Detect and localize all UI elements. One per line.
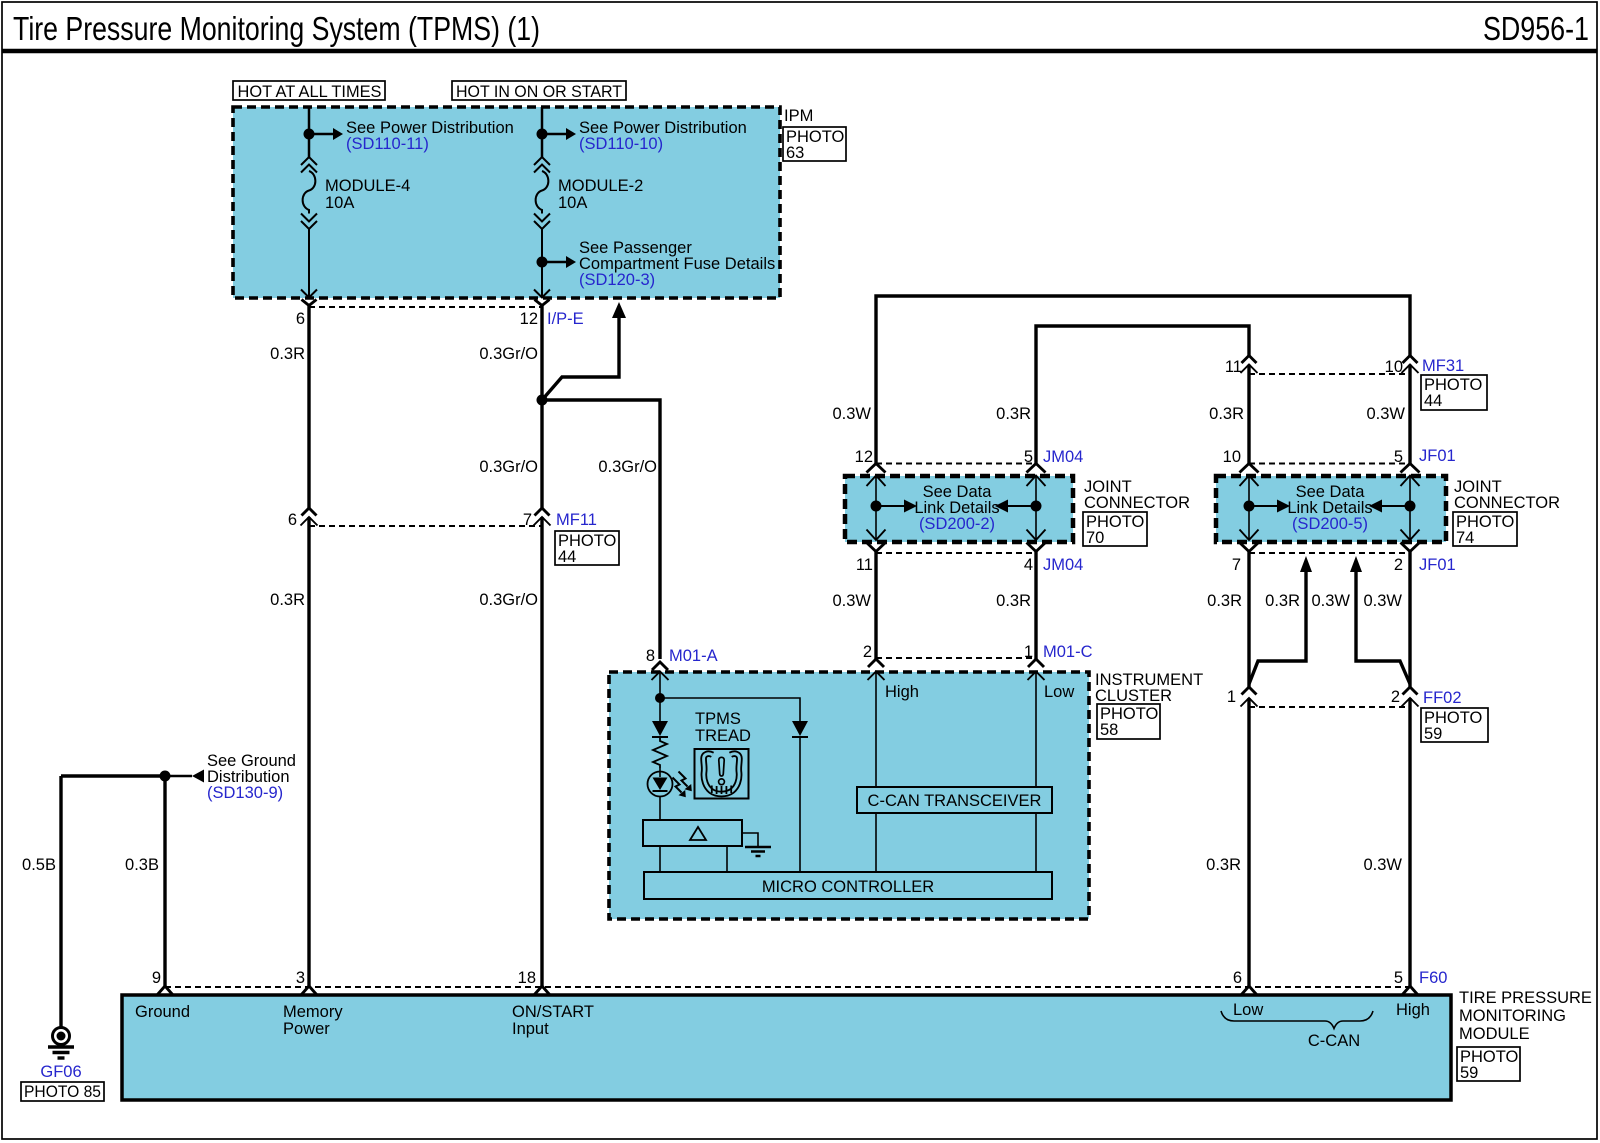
- wire C-CAN low top run: [1036, 326, 1249, 464]
- JM04 pin 4: [1027, 543, 1046, 552]
- module photo box PHOTO 59: [1457, 1047, 1520, 1081]
- cluster pin 8 M01-A: [652, 662, 668, 670]
- joint connector JM04 box: [845, 476, 1073, 542]
- JM04 pin 5: [1027, 464, 1046, 473]
- connector I/P-E dashed line: [309, 306, 542, 308]
- JF01 top dashed line: [1249, 463, 1410, 465]
- svg-text:58: 58: [1100, 721, 1118, 739]
- svg-text:0.3Gr/O: 0.3Gr/O: [479, 458, 538, 476]
- svg-text:44: 44: [558, 548, 576, 566]
- svg-text:CONNECTOR: CONNECTOR: [1454, 494, 1560, 512]
- wires transceiver to micro controller: [875, 813, 877, 872]
- svg-text:11: 11: [1225, 358, 1242, 376]
- wire branch to diode D2: [660, 698, 800, 721]
- svg-text:5: 5: [1394, 969, 1403, 987]
- arrow See Power Distribution (SD110-11): [309, 133, 333, 136]
- svg-text:Low: Low: [1044, 683, 1074, 701]
- svg-text:MF11: MF11: [556, 511, 597, 529]
- svg-text:MICRO CONTROLLER: MICRO CONTROLLER: [762, 878, 934, 896]
- cluster pin 2: [868, 659, 884, 667]
- IPM pin 6: [302, 300, 317, 306]
- svg-text:Tire Pressure Monitoring Syste: Tire Pressure Monitoring System (TPMS) (…: [13, 10, 540, 47]
- FF02 pin 2: [1403, 687, 1418, 695]
- node junction below pin 8: [655, 693, 665, 703]
- label HOT IN ON OR START: [452, 81, 626, 100]
- MF31 pin 11: [1242, 356, 1257, 364]
- wire LED to amplifier: [659, 797, 661, 821]
- svg-text:10A: 10A: [558, 194, 587, 212]
- arrow See Ground Distribution (SD130-9): [165, 775, 192, 778]
- svg-text:0.3W: 0.3W: [1363, 592, 1402, 610]
- svg-text:0.3B: 0.3B: [125, 856, 159, 874]
- MF31 pin 10: [1403, 356, 1418, 364]
- wire branch to instrument cluster pin 8: [542, 400, 660, 659]
- connector MF31 dashed line: [1249, 373, 1410, 375]
- svg-text:0.3Gr/O: 0.3Gr/O: [479, 345, 538, 363]
- internal ground symbol: [742, 833, 758, 846]
- svg-text:M01-A: M01-A: [669, 647, 718, 665]
- wire 0.3R from IPM pin 6 to MF11 pin 6: [307, 306, 310, 509]
- svg-text:(SD200-5): (SD200-5): [1292, 515, 1368, 533]
- JF01 pin 10: [1240, 464, 1259, 473]
- svg-text:1: 1: [1227, 688, 1236, 706]
- svg-text:5: 5: [1024, 448, 1033, 466]
- svg-text:10A: 10A: [325, 194, 354, 212]
- svg-text:0.3Gr/O: 0.3Gr/O: [479, 591, 538, 609]
- module pin 3: [302, 986, 317, 995]
- wire 0.3R MF31 to JF01: [1247, 365, 1250, 464]
- joint connector JF01 box: [1216, 476, 1446, 542]
- title separator line: [2, 49, 1597, 54]
- svg-text:10: 10: [1385, 358, 1403, 376]
- svg-text:0.3Gr/O: 0.3Gr/O: [598, 458, 657, 476]
- module pin 18: [535, 986, 550, 995]
- svg-text:0.3R: 0.3R: [1206, 856, 1241, 874]
- svg-text:(SD110-11): (SD110-11): [346, 135, 429, 153]
- svg-text:7: 7: [1232, 556, 1241, 574]
- node junction passenger fuse details: [537, 257, 548, 268]
- instrument cluster box: [609, 672, 1089, 919]
- svg-text:MODULE-4: MODULE-4: [325, 177, 410, 195]
- arrow See Power Distribution (SD110-10): [542, 133, 566, 136]
- IPM pin 12: [535, 300, 550, 306]
- svg-text:0.3R: 0.3R: [1265, 592, 1300, 610]
- ground symbol GF06: [53, 1028, 70, 1045]
- wire 0.3R JM04 pin 4 to cluster pin 1: [1034, 552, 1037, 660]
- svg-text:SD956-1: SD956-1: [1483, 10, 1589, 47]
- module pin 9: [158, 986, 173, 995]
- JM04 internal left node: [871, 501, 882, 512]
- TPMS TREAD warning icon: [695, 749, 749, 799]
- svg-text:70: 70: [1086, 529, 1104, 547]
- resistor R1: [653, 737, 667, 768]
- svg-text:Input: Input: [512, 1020, 549, 1038]
- svg-text:0.3W: 0.3W: [1363, 856, 1402, 874]
- JM04 internal right node: [1031, 501, 1042, 512]
- svg-text:2: 2: [1391, 688, 1400, 706]
- JF01 pin 2: [1401, 543, 1420, 552]
- branch arrow 0.3W up (twisted pair continuation): [1356, 572, 1410, 684]
- svg-text:CONNECTOR: CONNECTOR: [1084, 494, 1190, 512]
- svg-text:MODULE: MODULE: [1459, 1025, 1530, 1043]
- svg-text:0.3W: 0.3W: [832, 592, 871, 610]
- svg-text:44: 44: [1424, 392, 1442, 410]
- svg-text:MODULE-2: MODULE-2: [558, 177, 643, 195]
- svg-text:9: 9: [152, 969, 161, 987]
- ground photo box PHOTO 85: [21, 1082, 104, 1101]
- svg-text:High: High: [885, 683, 919, 701]
- svg-text:0.3R: 0.3R: [996, 405, 1031, 423]
- amplifier to micro controller wires: [659, 846, 661, 872]
- fuse MODULE-4 10A: [301, 157, 317, 165]
- branch arrow 0.3R up (twisted pair continuation): [1249, 572, 1306, 684]
- JF01 photo box PHOTO 74: [1453, 512, 1517, 546]
- svg-text:(SD110-10): (SD110-10): [579, 135, 663, 153]
- svg-text:1: 1: [1024, 643, 1033, 661]
- svg-text:0.3R: 0.3R: [996, 592, 1031, 610]
- svg-text:2: 2: [1394, 556, 1403, 574]
- C-CAN brace: [1221, 1011, 1373, 1029]
- svg-text:18: 18: [518, 969, 536, 987]
- wire fuse MODULE-4 to IPM pin 6: [308, 229, 310, 298]
- svg-text:M01-C: M01-C: [1043, 643, 1093, 661]
- wire 0.3W FF02 to module pin 5: [1408, 698, 1411, 986]
- svg-text:8: 8: [646, 647, 655, 665]
- wire diode D2 to micro controller: [799, 737, 801, 872]
- svg-text:PHOTO 85: PHOTO 85: [24, 1083, 101, 1101]
- svg-text:6: 6: [1233, 969, 1242, 987]
- svg-text:0.3W: 0.3W: [832, 405, 871, 423]
- svg-text:Power: Power: [283, 1020, 330, 1038]
- node junction at fuse MODULE-4 feed: [304, 129, 315, 140]
- MF31 photo box PHOTO 44: [1421, 375, 1487, 410]
- svg-text:TPMS: TPMS: [695, 710, 741, 728]
- wire 0.3W JF01 pin 2 to FF02 pin 2: [1408, 552, 1411, 688]
- svg-text:JF01: JF01: [1419, 556, 1456, 574]
- wire 0.3R FF02 to module pin 6: [1247, 698, 1250, 986]
- svg-text:Ground: Ground: [135, 1003, 190, 1021]
- diode D2: [792, 721, 808, 736]
- LED indicator: [648, 772, 673, 797]
- svg-text:12: 12: [520, 310, 538, 328]
- svg-text:2: 2: [863, 643, 872, 661]
- IPM photo box PHOTO 63: [783, 127, 846, 161]
- svg-text:0.3W: 0.3W: [1311, 592, 1350, 610]
- wire cluster pin 2 to transceiver: [875, 672, 877, 788]
- connector M01-C dashed line: [876, 657, 1036, 659]
- svg-text:TREAD: TREAD: [695, 727, 751, 745]
- JM04 photo box PHOTO 70: [1083, 512, 1147, 546]
- module pin 6: [1242, 986, 1257, 995]
- IPM module box: [233, 107, 780, 298]
- svg-text:59: 59: [1460, 1064, 1478, 1082]
- C-CAN transceiver box: [857, 787, 1052, 813]
- svg-text:FF02: FF02: [1423, 689, 1462, 707]
- svg-text:Low: Low: [1233, 1001, 1263, 1019]
- wire 0.3Gr/O from IPM pin 12 down: [540, 306, 543, 509]
- svg-text:6: 6: [288, 511, 297, 529]
- svg-text:MONITORING: MONITORING: [1459, 1007, 1566, 1025]
- svg-text:GF06: GF06: [40, 1063, 81, 1081]
- wire 0.3R from MF11 pin 6 to module pin 3: [307, 517, 310, 986]
- diode D1: [659, 698, 661, 721]
- connector FF02 dashed line: [1249, 706, 1410, 708]
- JM04 bottom dashed line: [876, 552, 1036, 554]
- svg-text:10: 10: [1223, 448, 1241, 466]
- svg-text:0.3R: 0.3R: [270, 591, 305, 609]
- svg-text:3: 3: [296, 969, 305, 987]
- JF01 internal left node: [1244, 501, 1255, 512]
- svg-text:High: High: [1396, 1001, 1430, 1019]
- MF11 pin 7: [535, 508, 550, 516]
- node junction at 0.3Gr/O branch: [537, 395, 548, 406]
- svg-text:63: 63: [786, 144, 804, 162]
- svg-text:I/P-E: I/P-E: [547, 310, 584, 328]
- wire cluster pin 1 to transceiver: [1035, 672, 1037, 788]
- svg-text:(SD200-2): (SD200-2): [919, 515, 995, 533]
- svg-text:TIRE PRESSURE: TIRE PRESSURE: [1459, 989, 1592, 1007]
- wire 0.3Gr/O from MF11 pin 7 to module pin 18: [540, 517, 543, 986]
- wire 0.3R JF01 pin 7 to FF02 pin 1: [1247, 552, 1250, 688]
- svg-text:5: 5: [1394, 448, 1403, 466]
- LED light arrows: [673, 778, 682, 793]
- JF01 internal right node: [1405, 501, 1416, 512]
- wire 0.3W MF31 to JF01: [1408, 365, 1411, 464]
- amplifier box U1: [643, 820, 742, 846]
- connector MF11 dashed line: [309, 525, 542, 527]
- MF11 pin 6: [302, 508, 317, 516]
- FF02 photo box PHOTO 59: [1421, 708, 1488, 742]
- tire pressure monitoring module box: [122, 995, 1451, 1100]
- cluster pin 1: [1028, 659, 1044, 667]
- svg-text:MF31: MF31: [1422, 357, 1464, 375]
- svg-text:4: 4: [1024, 556, 1033, 574]
- svg-text:C-CAN TRANSCEIVER: C-CAN TRANSCEIVER: [868, 792, 1042, 810]
- svg-text:0.3R: 0.3R: [1207, 592, 1242, 610]
- svg-text:0.3R: 0.3R: [270, 345, 305, 363]
- svg-text:F60: F60: [1419, 969, 1447, 987]
- svg-text:11: 11: [856, 556, 873, 574]
- JM04 pin 11: [867, 543, 886, 552]
- wire from IPM top to fuse MODULE-2: [541, 107, 544, 158]
- fuse MODULE-2 10A: [534, 157, 550, 165]
- wire 0.3W JM04 pin 11 to cluster pin 2: [874, 552, 877, 660]
- svg-text:JF01: JF01: [1419, 447, 1456, 465]
- JF01 pin 7: [1240, 543, 1259, 552]
- svg-text:0.3W: 0.3W: [1366, 405, 1405, 423]
- svg-text:(SD130-9): (SD130-9): [207, 784, 283, 802]
- node junction at fuse MODULE-2 feed: [537, 129, 548, 140]
- module connector dashed line F60: [165, 986, 1410, 988]
- arrow up to IPM (branch): [542, 316, 619, 400]
- svg-text:7: 7: [523, 511, 532, 529]
- MF11 photo box PHOTO 44: [555, 531, 619, 565]
- wire 0.3B to module pin 9: [163, 776, 166, 986]
- svg-text:Memory: Memory: [283, 1003, 343, 1021]
- svg-text:(SD120-3): (SD120-3): [579, 271, 655, 289]
- svg-text:HOT AT ALL TIMES: HOT AT ALL TIMES: [238, 82, 382, 101]
- wire 0.5B ground run: [61, 774, 165, 777]
- JF01 bottom dashed line: [1249, 552, 1410, 554]
- JF01 pin 5: [1401, 464, 1420, 473]
- svg-text:IPM: IPM: [784, 107, 813, 125]
- arrow See Passenger Compartment Fuse Details (SD120-3): [542, 261, 566, 264]
- wire fuse MODULE-2 to IPM pin 12: [541, 229, 543, 298]
- cluster photo box PHOTO 58: [1097, 704, 1160, 739]
- svg-text:HOT IN ON OR START: HOT IN ON OR START: [456, 82, 622, 101]
- wire from IPM top to fuse MODULE-4: [308, 107, 311, 158]
- module pin 5: [1403, 986, 1418, 995]
- svg-text:59: 59: [1424, 725, 1442, 743]
- JM04 top dashed line: [876, 463, 1036, 465]
- wire C-CAN high top run: [876, 296, 1410, 464]
- svg-text:JM04: JM04: [1043, 556, 1083, 574]
- label HOT AT ALL TIMES: [233, 81, 385, 100]
- svg-text:0.5B: 0.5B: [22, 856, 56, 874]
- micro controller box: [644, 872, 1052, 899]
- svg-text:74: 74: [1456, 529, 1474, 547]
- svg-text:12: 12: [855, 448, 873, 466]
- JM04 pin 12: [867, 464, 886, 473]
- svg-text:C-CAN: C-CAN: [1308, 1032, 1360, 1050]
- FF02 pin 1: [1242, 687, 1257, 695]
- svg-text:CLUSTER: CLUSTER: [1095, 687, 1172, 705]
- svg-text:ON/START: ON/START: [512, 1003, 594, 1021]
- svg-text:0.3R: 0.3R: [1209, 405, 1244, 423]
- svg-text:JM04: JM04: [1043, 448, 1083, 466]
- svg-text:6: 6: [296, 310, 305, 328]
- node junction ground branch: [160, 771, 171, 782]
